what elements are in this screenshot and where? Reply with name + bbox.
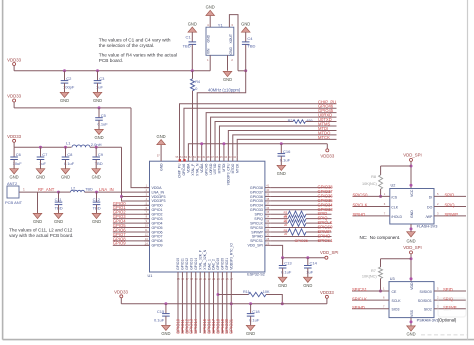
ground top of crystal pin4 (209, 16, 211, 28)
wire U3 SO/SIO1 pin (434, 299, 466, 301)
svg-text:TBD: TBD (247, 44, 255, 49)
wire LNA_IN to chip (85, 191, 150, 193)
capacitor C6 10uF (13, 147, 15, 157)
wire SPIQ row with series resistor (270, 218, 288, 220)
svg-text:GND: GND (157, 134, 166, 139)
U1 GND top pin (160, 145, 162, 161)
wire SPIHD row (270, 235, 331, 237)
wire bottom drop pin 26 (226, 277, 228, 333)
capacitor C11 TBD (57, 191, 60, 194)
svg-text:SPICS1: SPICS1 (352, 287, 368, 292)
IC U1 ESP32-S2 body (150, 161, 265, 272)
U1 right pins names and stubs (265, 187, 270, 189)
wire GPIO3 left (113, 218, 150, 220)
svg-text:GND: GND (93, 98, 102, 103)
svg-text:GND: GND (61, 175, 70, 180)
resistor R4 0 (192, 71, 194, 79)
svg-text:C14: C14 (310, 261, 318, 266)
svg-text:C12: C12 (93, 197, 101, 202)
erc markers on top pins (179, 159, 181, 161)
svg-text:MTCK: MTCK (318, 135, 330, 140)
svg-text:GPIO38: GPIO38 (250, 186, 263, 190)
wire GPIO36 row (270, 195, 331, 197)
wire bottom drop pin 16 (181, 277, 183, 333)
svg-text:GND: GND (159, 163, 163, 171)
wire crystal pin1 XIN (209, 55, 211, 71)
svg-text:SPIQ: SPIQ (445, 203, 456, 208)
ground stub of antenna (37, 192, 39, 213)
wire U2 DO pin (434, 206, 466, 208)
capacitor C3 1uF (96, 69, 99, 72)
svg-text:VDD_SPI: VDD_SPI (320, 250, 338, 255)
svg-text:GPIO33: GPIO33 (250, 208, 263, 212)
svg-text:R2: R2 (288, 119, 293, 123)
wire VDD3P3_CPU riser (223, 144, 225, 156)
wire VDD_SPI pin route (270, 245, 325, 257)
svg-text:XTAL_P: XTAL_P (191, 163, 195, 176)
wire GPIO34 row (270, 204, 331, 206)
wire bottom drop pin 25 (221, 277, 223, 333)
svg-text:GPIO7: GPIO7 (152, 235, 163, 239)
svg-text:GPIO10: GPIO10 (176, 258, 180, 270)
capacitor C14 1uF (306, 256, 309, 259)
capacitor C12 TBD (95, 191, 98, 194)
svg-text:XIN: XIN (207, 48, 211, 54)
wire bus MTDI (228, 130, 336, 155)
wire crystal pin3 XOUT route (229, 15, 238, 71)
wire VDD33 rail2 (14, 107, 131, 109)
capacitor C9 TBD (95, 146, 98, 149)
wire GPIO33 row (270, 209, 331, 211)
svg-text:GPIO19: GPIO19 (216, 258, 220, 270)
capacitor C2 100pF (63, 69, 66, 72)
svg-text:SPICS0: SPICS0 (353, 193, 369, 198)
power flag VDD33 mid (326, 144, 328, 149)
svg-text:GPIO14: GPIO14 (194, 258, 198, 270)
wire bus GPIO46 (184, 108, 337, 156)
svg-text:C2: C2 (66, 76, 72, 81)
svg-text:GPIO9: GPIO9 (152, 244, 163, 248)
wire C4 to XTAL_N pin (197, 71, 246, 156)
svg-text:SPID: SPID (445, 193, 455, 198)
wire VDDA pin52 riser (201, 144, 203, 156)
resistor series on SPID (288, 211, 306, 217)
wire bus MTMS (219, 126, 336, 156)
wire bus MTDO (233, 135, 337, 156)
svg-text:the selection of the crystal.: the selection of the crystal. (99, 43, 155, 48)
svg-text:GPIO21: GPIO21 (225, 258, 229, 270)
wire bottom drop pin 18 (190, 277, 192, 333)
svg-text:0: 0 (195, 87, 197, 91)
svg-text:TBD: TBD (85, 187, 93, 191)
wire GPIO6 left (113, 231, 150, 233)
svg-text:GPIO36: GPIO36 (250, 195, 263, 199)
svg-text:GPIO9: GPIO9 (113, 241, 126, 246)
svg-text:ANT2: ANT2 (7, 181, 18, 186)
wire bottom drop pin 19 (195, 277, 197, 333)
svg-text:40MHz (±10ppm): 40MHz (±10ppm) (208, 87, 241, 92)
resistor R7 10K NC (381, 258, 412, 260)
svg-text:EF: EF (443, 303, 455, 313)
wire U2 /HOLD pin (353, 215, 390, 217)
svg-text:NC: No component.: NC: No component. (360, 235, 401, 240)
svg-text:R8: R8 (371, 175, 376, 179)
svg-text:GND: GND (406, 332, 415, 337)
wire VDD33 rail1 (14, 70, 210, 72)
svg-text:GND: GND (161, 331, 170, 336)
svg-text:SPIQ: SPIQ (443, 296, 454, 301)
svg-text:R4: R4 (195, 80, 200, 84)
svg-text:GPIO45: GPIO45 (204, 163, 208, 175)
svg-text:SPICS0: SPICS0 (250, 226, 263, 230)
resistor R2 499 (293, 120, 306, 124)
wire SPID row with series resistor (270, 213, 288, 215)
wire GPIO35 row (270, 200, 331, 202)
svg-text:XTAL_32K_P: XTAL_32K_P (198, 249, 202, 270)
svg-text:GPIO8: GPIO8 (152, 239, 163, 243)
svg-text:DAC_2: DAC_2 (212, 259, 216, 270)
svg-text:GND: GND (278, 283, 287, 288)
svg-text:GPIO11: GPIO11 (181, 258, 185, 270)
svg-text:20: 20 (284, 223, 288, 227)
inductor L2 TBD (59, 191, 71, 193)
svg-text:SCLK: SCLK (392, 299, 402, 303)
svg-text:LNA_IN: LNA_IN (152, 190, 165, 194)
svg-text:VDDA: VDDA (152, 186, 163, 190)
svg-text:C4: C4 (247, 36, 253, 41)
svg-text:RF_ANT: RF_ANT (38, 187, 55, 192)
junction VDD3P3_RTC_IO to VDD33 rail (230, 302, 233, 305)
svg-text:GND: GND (246, 331, 255, 336)
svg-text:L2: L2 (71, 186, 75, 190)
U1 top pins names and stubs (179, 156, 181, 161)
wire R4 to XTAL_P pin (192, 91, 194, 156)
wire bus MTCK (237, 139, 336, 156)
wire VDD33 bottom rail (121, 303, 327, 305)
svg-text:GPIO1: GPIO1 (152, 208, 163, 212)
svg-text:LNA_IN: LNA_IN (99, 187, 114, 192)
wire bottom drop pin 20 (199, 277, 201, 333)
wire GPIO4 left (113, 222, 150, 224)
svg-text:CHIP_PU: CHIP_PU (178, 163, 182, 178)
svg-text:U2: U2 (391, 184, 396, 188)
svg-text:(Optional): (Optional) (438, 318, 457, 323)
svg-text:GPIO26: GPIO26 (295, 239, 308, 243)
svg-text:GND: GND (277, 171, 286, 176)
svg-text:10K(NC): 10K(NC) (362, 275, 378, 279)
svg-text:C9: C9 (98, 152, 104, 157)
capacitor C1 TBD (188, 27, 197, 32)
svg-text:GND: GND (188, 21, 197, 26)
wire U3 SI/SIO0 pin (434, 290, 466, 292)
wire U2 /WP pin (434, 215, 466, 217)
svg-text:GPIO14: GPIO14 (193, 318, 198, 334)
svg-text:GPIO13: GPIO13 (190, 258, 194, 270)
svg-text:GPIO46: GPIO46 (182, 163, 186, 175)
svg-text:SPIWP: SPIWP (445, 212, 459, 217)
svg-text:U3: U3 (390, 277, 395, 281)
svg-text:XTAL_32K_N: XTAL_32K_N (203, 249, 207, 270)
svg-text:GND: GND (92, 175, 101, 180)
svg-text:XTAL_N: XTAL_N (195, 163, 199, 176)
svg-text:0.1uF: 0.1uF (154, 318, 165, 323)
U1 left pins names and stubs (144, 187, 149, 189)
wire GPIO9 left (113, 244, 150, 246)
svg-text:VDD3P3: VDD3P3 (152, 199, 166, 203)
svg-text:GND: GND (229, 47, 233, 55)
svg-text:GND: GND (206, 5, 215, 10)
svg-text:GPIO34: GPIO34 (250, 204, 263, 208)
wire VDD33 rail3 (14, 146, 71, 148)
power flag VDD_SPI route (325, 256, 328, 259)
svg-text:SPIHD: SPIHD (352, 305, 365, 310)
svg-text:GND: GND (94, 135, 103, 140)
svg-text:GND: GND (410, 210, 414, 218)
svg-text:20: 20 (284, 232, 288, 236)
wire U2 /CS pin (353, 195, 390, 197)
svg-text:GND: GND (207, 34, 211, 42)
ground flag above U1 GND pin (157, 140, 166, 145)
capacitor C8 0.1uF (64, 146, 67, 149)
svg-text:SO/SIO1: SO/SIO1 (418, 299, 432, 303)
svg-text:VDD33: VDD33 (114, 290, 128, 295)
svg-text:GPIO4: GPIO4 (152, 221, 163, 225)
svg-text:VDD_SPI: VDD_SPI (248, 244, 263, 248)
svg-text:MTMS: MTMS (218, 163, 222, 174)
svg-text:SIO3: SIO3 (392, 308, 400, 312)
wire RF_ANT from antenna (19, 191, 59, 193)
svg-text:MTDO: MTDO (231, 163, 235, 173)
svg-text:TBD: TBD (183, 44, 191, 49)
svg-text:GND: GND (33, 219, 42, 224)
faint watermark bottom right (438, 298, 466, 317)
svg-text:DI: DI (429, 195, 433, 199)
svg-text:C6: C6 (16, 152, 22, 157)
svg-text:/CS: /CS (391, 195, 398, 199)
wire GPIO8 left (113, 240, 150, 242)
wire U3 SCLK pin (352, 299, 389, 301)
wire U3 CE pin (352, 290, 389, 292)
svg-text:/HOLD: /HOLD (391, 215, 402, 219)
svg-text:VDD33: VDD33 (7, 93, 21, 98)
svg-text:GND: GND (303, 283, 312, 288)
svg-text:SPID: SPID (443, 287, 453, 292)
svg-text:VSS: VSS (410, 309, 414, 317)
svg-text:GPIO12: GPIO12 (185, 258, 189, 270)
svg-text:GND: GND (92, 219, 101, 224)
svg-text:C16: C16 (283, 149, 291, 154)
capacitor C18 0.1uF (249, 302, 252, 305)
ground below crystal pin2 (227, 55, 229, 71)
resistor series on SPIQ (288, 215, 306, 221)
capacitor C13 0.1uF (281, 256, 284, 259)
svg-text:10K: 10K (263, 290, 270, 294)
svg-text:/WP: /WP (426, 215, 433, 219)
wire bus CHIP_PU (180, 104, 337, 156)
capacitor C16 0.1uF (280, 142, 283, 145)
svg-text:GND: GND (54, 219, 63, 224)
svg-text:VDD_SPI: VDD_SPI (403, 153, 421, 158)
resistor series on SPICLK (288, 220, 306, 226)
svg-text:SPIHD: SPIHD (252, 235, 263, 239)
wire SPICS0 row (270, 227, 331, 229)
wire U2 DI pin (434, 195, 466, 197)
svg-text:PSRAM-3V3: PSRAM-3V3 (417, 318, 439, 323)
svg-text:U1: U1 (148, 274, 153, 278)
svg-text:SPICS1: SPICS1 (318, 238, 334, 243)
svg-text:GPIO5: GPIO5 (152, 226, 163, 230)
svg-text:GND: GND (406, 238, 415, 243)
wire VDDA tie line to VDD33 (188, 144, 327, 156)
wire bottom drop pin 21 (204, 277, 206, 333)
capacitor C15 0.1uF (164, 302, 167, 305)
wire GPIO37 row (270, 191, 331, 193)
svg-text:VDD33: VDD33 (7, 57, 21, 62)
svg-text:The value of R4 varies with th: The value of R4 varies with the actual (99, 52, 177, 57)
wire R11 line from GPIO19 (216, 293, 219, 296)
svg-text:GPIO20: GPIO20 (221, 258, 225, 270)
svg-text:SIO2: SIO2 (424, 308, 432, 312)
ground below U2 (410, 224, 412, 232)
wire U3 SIO2 pin (434, 308, 466, 310)
wire bottom drop pin 27 (230, 277, 232, 333)
wire bottom drop pin 17 (186, 277, 188, 333)
wire GPIO5 left (113, 227, 150, 229)
svg-text:VDD3P3_CPU: VDD3P3_CPU (227, 163, 231, 185)
svg-text:C8: C8 (67, 152, 73, 157)
wire U3 SIO3 pin (352, 308, 389, 310)
wire GPIO0 left (113, 204, 150, 206)
svg-text:1: 1 (23, 188, 25, 192)
svg-text:VDDA: VDDA (200, 163, 204, 173)
svg-text:C5: C5 (101, 113, 107, 118)
resistor series on SPIWP (288, 229, 306, 235)
svg-text:U0RXD: U0RXD (209, 163, 213, 175)
resistor R8 10K NC (381, 165, 411, 167)
svg-text:ESP32-S2: ESP32-S2 (247, 273, 265, 277)
capacitor C7 1uF (39, 146, 42, 149)
svg-text:SPID: SPID (255, 213, 264, 217)
wire GPIO2 left (113, 213, 150, 215)
svg-text:SPIHD: SPIHD (353, 212, 366, 217)
wire SPIWP row with series resistor (270, 231, 288, 233)
capacitor C5 0.1uF (98, 106, 101, 109)
svg-text:C13: C13 (284, 261, 292, 266)
wire bottom drop pin 22 (208, 277, 210, 333)
svg-text:C3: C3 (99, 76, 105, 81)
svg-text:SI/SIO0: SI/SIO0 (420, 290, 432, 294)
svg-text:L1: L1 (66, 141, 71, 146)
svg-text:10K(NC): 10K(NC) (362, 182, 378, 186)
svg-text:GPIO3: GPIO3 (152, 217, 163, 221)
svg-text:C18: C18 (252, 309, 260, 314)
wire GPIO1 left (113, 209, 150, 211)
wire bottom drop pin 15 (177, 277, 179, 333)
svg-text:VDD33: VDD33 (7, 134, 21, 139)
svg-text:VCC: VCC (410, 189, 414, 197)
svg-text:GPIO0: GPIO0 (152, 204, 163, 208)
capacitor C4 TBD (241, 27, 250, 32)
svg-text:GND: GND (223, 77, 232, 82)
svg-text:SPICLK: SPICLK (352, 296, 367, 301)
svg-text:C11: C11 (55, 197, 63, 202)
svg-text:SPIQ: SPIQ (254, 217, 263, 221)
wire after L1 to VDD3P3 pins (90, 146, 122, 148)
wire bottom drop pin 23 (213, 277, 215, 333)
svg-text:GND: GND (10, 175, 19, 180)
wire bus U0RXD (211, 117, 337, 156)
svg-text:SPICLK: SPICLK (250, 221, 263, 225)
svg-text:GPIO37: GPIO37 (250, 190, 263, 194)
wire bottom drop pin 24 (217, 277, 219, 333)
svg-text:PCB board.: PCB board. (99, 58, 123, 63)
svg-text:VDD33: VDD33 (320, 290, 334, 295)
svg-text:C7: C7 (42, 152, 48, 157)
svg-text:VDD: VDD (410, 282, 414, 290)
svg-text:GND: GND (241, 21, 250, 26)
svg-text:The values of C1 and C4 vary w: The values of C1 and C4 vary with (99, 37, 171, 42)
svg-text:GPIO35: GPIO35 (250, 199, 263, 203)
svg-text:GPIO2: GPIO2 (152, 213, 163, 217)
svg-text:GND: GND (60, 98, 69, 103)
svg-text:PCB ANT: PCB ANT (5, 200, 23, 205)
wire GPIO7 left (113, 235, 150, 237)
svg-text:VDD33: VDD33 (320, 153, 334, 158)
svg-text:C15: C15 (157, 309, 165, 314)
wire GPIO38 row (270, 187, 331, 189)
page border frame (2, 0, 4, 340)
svg-text:XOUT: XOUT (229, 34, 233, 43)
wire SPICLK row with series resistor (270, 222, 288, 224)
svg-text:GND: GND (36, 175, 45, 180)
svg-text:DO: DO (427, 205, 433, 209)
wire bus GPIO45 (206, 113, 336, 156)
wire rail2 down to VDDA pin1 (131, 108, 150, 188)
svg-text:VDD3P3_RTC_IO: VDD3P3_RTC_IO (229, 243, 233, 270)
svg-text:VDD3P3: VDD3P3 (152, 195, 166, 199)
svg-text:CLK: CLK (391, 205, 398, 209)
svg-text:Y1: Y1 (218, 22, 224, 27)
wire U2 CLK pin (353, 206, 390, 208)
U1 bottom pins names and stubs (177, 272, 179, 277)
svg-text:DAC_1: DAC_1 (207, 259, 211, 270)
svg-text:GPIO21: GPIO21 (229, 318, 234, 334)
svg-text:U0TXD: U0TXD (213, 163, 217, 174)
svg-text:GPIO6: GPIO6 (152, 230, 163, 234)
svg-text:SPICLK: SPICLK (353, 203, 368, 208)
svg-text:MTDI: MTDI (222, 164, 226, 172)
svg-text:vary with the actual PCB board: vary with the actual PCB board. (9, 233, 73, 238)
wire bus U0TXD (215, 122, 293, 156)
ground below U3 (410, 318, 412, 326)
svg-text:R7: R7 (371, 269, 376, 273)
svg-text:SPICS1: SPICS1 (250, 239, 263, 243)
wire SPICS1 row (270, 240, 331, 242)
svg-text:CE: CE (392, 290, 398, 294)
svg-text:MTCK: MTCK (235, 163, 239, 173)
svg-text:FLASH-3V3: FLASH-3V3 (417, 224, 438, 229)
svg-text:C1: C1 (185, 34, 191, 39)
svg-text:VDDA: VDDA (187, 163, 191, 173)
svg-text:VDD_SPI: VDD_SPI (403, 245, 421, 250)
svg-text:SPIWP: SPIWP (251, 230, 263, 234)
